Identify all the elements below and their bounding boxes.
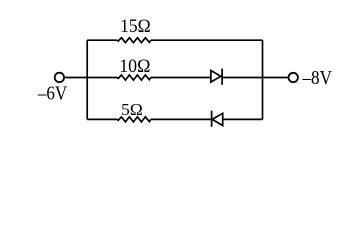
resistor R2 10-ohm zigzag (117, 75, 151, 80)
svg-text:10Ω: 10Ω (119, 56, 150, 77)
wire middle branch: resistor to diode D1 (151, 77, 211, 79)
diode D2 triangle (pointing left) (212, 113, 223, 125)
diode D2 cathode bar (left side) (211, 111, 213, 127)
wire bottom branch middle: resistor to diode D2 (151, 118, 212, 120)
terminal circle left (-6V) (55, 73, 64, 82)
wire bottom branch right (223, 118, 263, 120)
svg-text:–8V: –8V (302, 67, 333, 89)
wire middle-left: left terminal to 10-ohm resistor (64, 77, 117, 79)
terminal circle right (-8V) (289, 73, 298, 82)
wire bottom branch left (87, 118, 117, 120)
wire left bus vertical (86, 40, 88, 119)
svg-text:–6V: –6V (37, 82, 68, 104)
resistor R1 15-ohm zigzag (117, 38, 151, 43)
wire top branch left (87, 39, 117, 41)
wire right bus vertical (262, 40, 264, 119)
diode D1 triangle (pointing right) (211, 71, 221, 83)
wire top branch right (151, 39, 263, 41)
resistor R3 5-ohm zigzag (117, 117, 151, 122)
wire middle branch right: diode to right terminal (222, 77, 288, 79)
svg-text:15Ω: 15Ω (120, 16, 151, 37)
svg-text:5Ω: 5Ω (121, 100, 143, 119)
diode D1 cathode bar (221, 69, 223, 85)
